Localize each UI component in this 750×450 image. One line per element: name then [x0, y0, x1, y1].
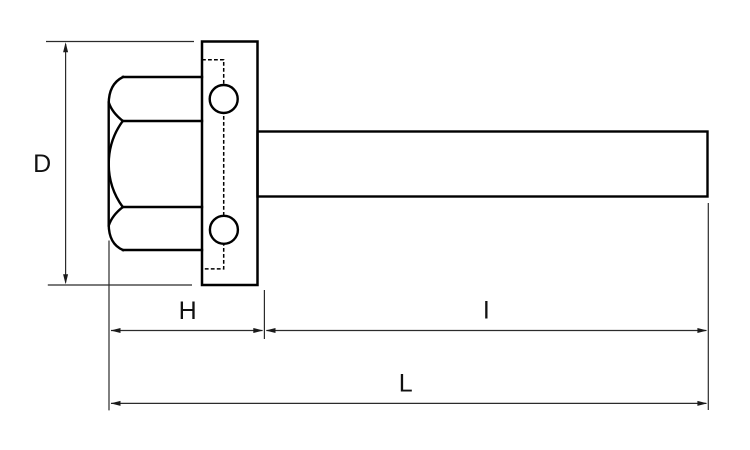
hex head top-left corner arc [109, 77, 123, 104]
extension line middle (flange right, H/I boundary) [263, 290, 265, 339]
hex head central facet chamfer arc [109, 121, 123, 207]
hex head upper facet line [123, 120, 202, 122]
arrowhead H left [111, 328, 121, 333]
arrowhead D top [63, 42, 68, 52]
arrowhead I right [697, 328, 707, 333]
hex head bottom edge [123, 249, 202, 251]
extension line left (head left, for H and L) [108, 241, 110, 411]
dimension line I [266, 330, 706, 332]
hex head lower chamfer arc (outer facet) [109, 207, 123, 225]
extension line top (flange top) [46, 41, 194, 43]
arrowhead D bottom [63, 274, 68, 284]
flange plate [202, 42, 258, 286]
dimension line L [111, 402, 706, 404]
dimension line D (vertical) [65, 44, 67, 283]
hex head upper chamfer arc (outer facet) [109, 103, 123, 121]
svg-text:H: H [179, 297, 197, 325]
hex head top edge [123, 76, 202, 78]
arrowhead L left [111, 401, 121, 406]
hex head lower facet line [123, 206, 202, 208]
hidden outline (dashed) inside flange [202, 60, 224, 269]
hex head left edge [107, 104, 109, 224]
svg-text:I: I [483, 297, 490, 325]
shank rectangle [258, 132, 708, 197]
hole circle lower [210, 216, 238, 244]
extension line right (shank end, for I and L) [707, 203, 709, 410]
arrowhead I left [266, 328, 276, 333]
hole circle upper [210, 85, 238, 113]
arrowhead L right [697, 401, 707, 406]
dimension line H [111, 330, 263, 332]
hex head bottom-left corner arc [109, 224, 123, 250]
arrowhead H right [253, 328, 263, 333]
svg-text:D: D [33, 150, 51, 178]
svg-text:L: L [399, 370, 413, 398]
extension line bottom (flange bottom) [48, 284, 192, 286]
